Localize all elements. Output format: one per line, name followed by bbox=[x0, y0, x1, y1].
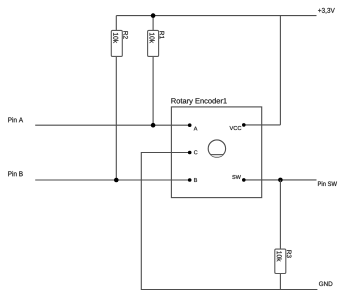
node junction Pin B / R2 bbox=[114, 178, 119, 183]
wire R2 top lead bbox=[115, 16, 117, 31]
net label +3,3V bbox=[318, 8, 335, 14]
pin B dot bbox=[188, 178, 192, 182]
wire pin C to GND bbox=[141, 153, 317, 290]
node junction SW / R3 bbox=[278, 178, 283, 183]
resistor R3 body bbox=[275, 249, 286, 273]
pin SW dot bbox=[242, 178, 246, 182]
label Rotary Encoder1 bbox=[171, 98, 226, 105]
designator label R2 bbox=[123, 31, 128, 38]
wire R3 bottom lead bbox=[279, 274, 281, 290]
node junction R1 top on +3.3V rail bbox=[151, 13, 156, 18]
label GND bbox=[319, 281, 332, 286]
value label 10k of R2 bbox=[113, 33, 118, 43]
wire SW net bbox=[244, 179, 317, 181]
pin label C bbox=[194, 150, 197, 154]
wire Pin A net bbox=[35, 124, 190, 126]
pin A dot bbox=[188, 123, 192, 127]
node junction Pin A / R1 bbox=[151, 123, 156, 128]
designator label R3 bbox=[287, 250, 292, 257]
pin label VCC bbox=[230, 126, 242, 130]
wire VCC pin to rail bbox=[244, 124, 281, 126]
pin label A bbox=[194, 127, 198, 131]
wire +3.3V rail drop to VCC bbox=[279, 16, 281, 125]
designator label R1 bbox=[160, 31, 164, 38]
pin label B bbox=[194, 178, 197, 182]
resistor R1 body bbox=[148, 30, 159, 56]
label Pin A bbox=[8, 117, 23, 122]
value label 10k of R1 bbox=[150, 33, 155, 43]
resistor R2 body bbox=[111, 30, 122, 56]
wire R1 bottom lead to Pin A net bbox=[152, 56, 154, 125]
value label 10k of R3 bbox=[277, 251, 282, 261]
rotary encoder shaft circle bbox=[208, 140, 225, 157]
wire R1 top lead bbox=[152, 16, 154, 31]
label Pin SW bbox=[318, 181, 337, 186]
pin VCC dot bbox=[242, 123, 246, 127]
pin label SW bbox=[232, 175, 241, 179]
wire R3 top lead bbox=[279, 180, 281, 249]
wire top +3.3V rail bbox=[116, 15, 316, 17]
pin C dot bbox=[188, 151, 192, 155]
wire R2 bottom lead to Pin B net bbox=[115, 56, 117, 180]
wire Pin B net bbox=[35, 179, 190, 181]
rotary encoder Rotary Encoder1 body bbox=[171, 107, 261, 198]
label Pin B bbox=[8, 171, 23, 176]
